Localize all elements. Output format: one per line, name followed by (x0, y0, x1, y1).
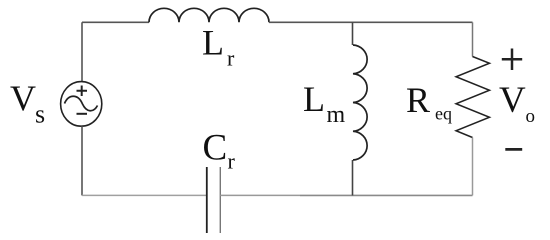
svg-text:L: L (202, 23, 224, 63)
source plus (77, 86, 88, 97)
wire right-bottom (472, 138, 474, 196)
svg-text:eq: eq (435, 104, 452, 124)
svg-text:V: V (10, 78, 36, 118)
wire Lm stub bottom (352, 160, 354, 195)
svg-text:o: o (526, 106, 536, 127)
wire bottom-right segment (220, 194, 300, 196)
resistor R1 (Req) (456, 57, 490, 138)
source V1 (Vs) circle (61, 82, 102, 127)
capacitor C1 (Cr) left plate (206, 167, 208, 233)
wire bottom-right segment 2 (300, 194, 473, 196)
svg-text:r: r (227, 45, 235, 70)
inductor L2 (Lm) (353, 45, 367, 160)
svg-text:L: L (303, 79, 325, 119)
minus sign Vo (505, 148, 522, 151)
wire Lm stub top (352, 22, 354, 45)
capacitor C1 (Cr) right plate (219, 167, 221, 233)
wire right-top (472, 22, 474, 56)
svg-text:m: m (327, 102, 346, 128)
svg-text:V: V (499, 80, 526, 121)
svg-text:s: s (35, 100, 45, 129)
inductor L1 (Lr) (149, 8, 269, 22)
svg-text:R: R (406, 80, 430, 120)
source sine (65, 96, 98, 111)
wire bottom-left segment (82, 194, 207, 196)
source minus (77, 113, 88, 115)
svg-text:r: r (228, 149, 236, 174)
svg-text:C: C (203, 128, 228, 169)
plus sign Vo (502, 49, 522, 71)
wire top-right segment (269, 21, 473, 23)
wire left-top (81, 22, 83, 81)
wire top-left segment (82, 21, 149, 23)
wire left-bottom (81, 126, 83, 195)
